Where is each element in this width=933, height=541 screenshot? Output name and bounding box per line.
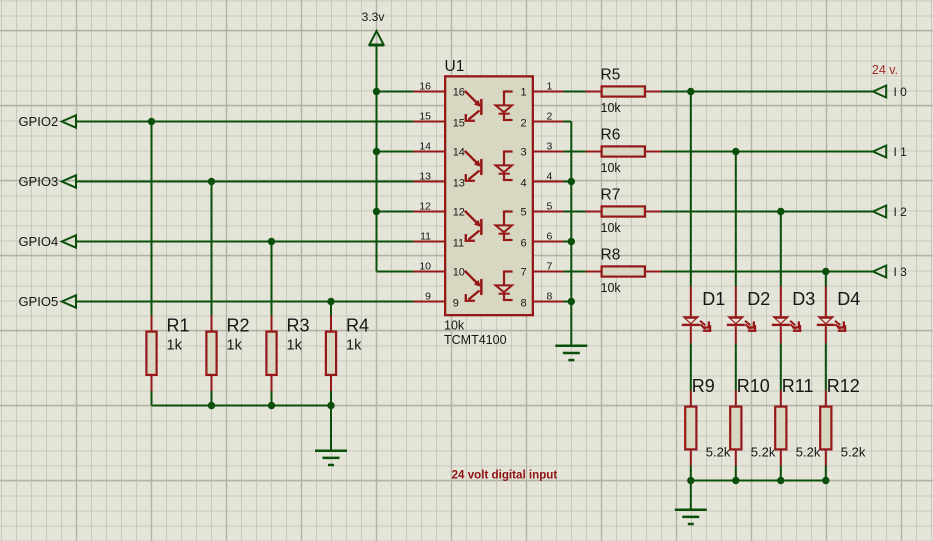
svg-text:10k: 10k: [601, 281, 622, 295]
svg-text:11: 11: [453, 238, 464, 250]
svg-text:R2: R2: [227, 315, 250, 335]
svg-text:12: 12: [453, 207, 465, 219]
svg-text:10k: 10k: [601, 221, 622, 235]
svg-text:2: 2: [547, 110, 553, 122]
svg-text:D2: D2: [747, 289, 770, 309]
svg-text:1k: 1k: [287, 338, 303, 354]
svg-text:24 volt digital input: 24 volt digital input: [452, 469, 558, 482]
svg-text:1: 1: [521, 87, 527, 99]
svg-text:TCMT4100: TCMT4100: [444, 333, 507, 347]
svg-text:R10: R10: [737, 376, 770, 396]
svg-text:GPIO4: GPIO4: [18, 234, 58, 249]
svg-text:5: 5: [521, 207, 527, 219]
svg-text:1k: 1k: [346, 338, 362, 354]
svg-text:15: 15: [453, 118, 465, 130]
svg-text:5.2k: 5.2k: [796, 444, 821, 459]
svg-text:R11: R11: [782, 376, 814, 396]
svg-text:9: 9: [453, 298, 459, 310]
svg-text:2: 2: [521, 118, 527, 130]
svg-text:3: 3: [547, 140, 553, 152]
svg-text:GPIO2: GPIO2: [18, 114, 58, 129]
svg-text:16: 16: [453, 87, 465, 99]
svg-text:R5: R5: [601, 67, 621, 84]
svg-text:5.2k: 5.2k: [706, 444, 731, 459]
svg-text:D3: D3: [792, 289, 815, 309]
svg-text:15: 15: [419, 110, 431, 122]
svg-text:10: 10: [419, 260, 431, 272]
svg-text:I 3: I 3: [894, 265, 908, 279]
svg-text:12: 12: [419, 200, 431, 212]
svg-text:R8: R8: [601, 247, 621, 264]
svg-text:R12: R12: [827, 376, 860, 396]
svg-text:8: 8: [521, 298, 527, 310]
svg-text:10k: 10k: [601, 161, 622, 175]
svg-text:10: 10: [453, 267, 465, 279]
svg-text:3.3v: 3.3v: [362, 10, 385, 24]
svg-text:R1: R1: [167, 315, 190, 335]
svg-text:4: 4: [547, 170, 553, 182]
svg-text:1k: 1k: [167, 338, 183, 354]
svg-text:13: 13: [453, 178, 465, 190]
svg-text:R4: R4: [346, 315, 369, 335]
svg-text:7: 7: [547, 260, 553, 272]
svg-text:14: 14: [453, 147, 465, 159]
svg-text:R9: R9: [692, 376, 715, 396]
svg-text:7: 7: [521, 267, 527, 279]
svg-text:R7: R7: [601, 187, 621, 204]
svg-text:D1: D1: [702, 289, 725, 309]
svg-text:10k: 10k: [444, 318, 465, 332]
svg-text:14: 14: [419, 140, 431, 152]
svg-text:5: 5: [547, 200, 553, 212]
svg-text:5.2k: 5.2k: [751, 444, 776, 459]
svg-text:I 2: I 2: [894, 205, 908, 219]
svg-text:1: 1: [547, 80, 553, 92]
svg-text:3: 3: [521, 147, 527, 159]
svg-text:16: 16: [419, 80, 431, 92]
svg-text:6: 6: [521, 238, 527, 250]
svg-text:10k: 10k: [601, 101, 622, 115]
svg-text:4: 4: [521, 178, 527, 190]
svg-text:13: 13: [419, 170, 431, 182]
svg-text:GPIO3: GPIO3: [18, 174, 58, 189]
svg-text:I 1: I 1: [894, 145, 908, 159]
svg-text:11: 11: [420, 230, 431, 242]
svg-text:24 v.: 24 v.: [872, 63, 898, 77]
svg-text:I 0: I 0: [894, 85, 908, 99]
svg-text:8: 8: [547, 290, 553, 302]
svg-text:U1: U1: [445, 58, 465, 75]
svg-text:6: 6: [547, 230, 553, 242]
svg-text:R3: R3: [287, 315, 310, 335]
svg-text:GPIO5: GPIO5: [18, 294, 58, 309]
svg-text:1k: 1k: [227, 338, 243, 354]
svg-text:R6: R6: [601, 127, 621, 144]
svg-text:5.2k: 5.2k: [841, 444, 866, 459]
svg-text:9: 9: [425, 290, 431, 302]
svg-text:D4: D4: [837, 289, 860, 309]
